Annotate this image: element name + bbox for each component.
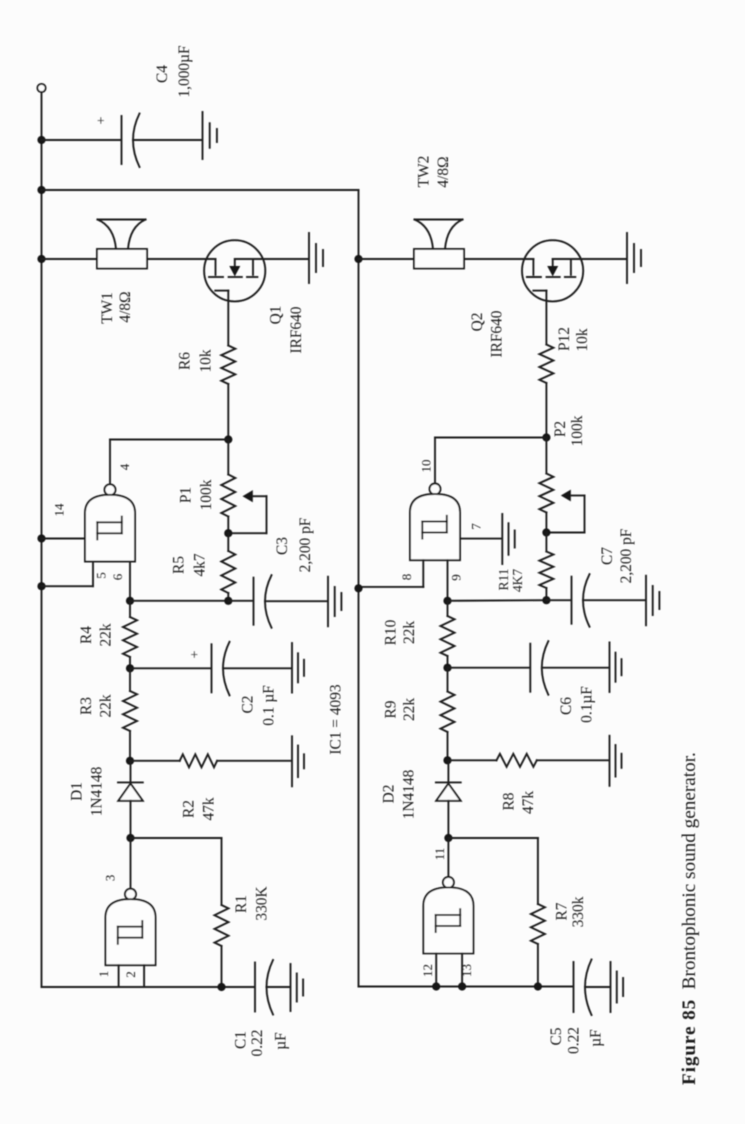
svg-text:4K7: 4K7 — [510, 569, 525, 592]
svg-text:R10: R10 — [383, 619, 400, 645]
svg-text:C4: C4 — [154, 65, 171, 83]
svg-text:+: + — [95, 116, 110, 124]
svg-text:4/8Ω: 4/8Ω — [117, 291, 134, 322]
wire bottom channel-2 — [359, 986, 573, 988]
node D1-R2 — [126, 757, 134, 765]
resistor R11 — [545, 533, 547, 552]
ground Q2 — [626, 233, 628, 283]
node R11 bottom — [542, 596, 550, 604]
gate U1B — [105, 484, 116, 495]
P2 wiper — [561, 490, 571, 502]
wire top rail to channel 2 — [42, 189, 359, 191]
svg-text:C5: C5 — [548, 1027, 565, 1045]
capacitor C5 — [573, 962, 575, 1012]
node pin14 junction — [37, 534, 45, 542]
node pin9 bottom — [443, 597, 451, 605]
svg-text:P12: P12 — [556, 327, 573, 351]
supply terminal — [37, 84, 45, 92]
wire to TW1 — [42, 258, 98, 260]
node R1 tap — [126, 834, 134, 842]
node C4 junction — [37, 136, 45, 144]
wire TW2 to Q2 — [464, 258, 533, 260]
wire pin 14 — [42, 538, 86, 540]
wire pin 1 — [118, 965, 120, 987]
svg-text:100k: 100k — [569, 415, 586, 446]
svg-text:100k: 100k — [198, 479, 215, 510]
wire center supply rail — [358, 190, 360, 987]
svg-text:Figure 85 Brontophonic sound: Figure 85 Brontophonic sound generator. — [679, 752, 700, 1085]
node TW2 junction — [354, 255, 362, 263]
svg-text:C7: C7 — [599, 547, 616, 565]
svg-text:P2: P2 — [552, 421, 569, 437]
svg-text:R7: R7 — [554, 902, 571, 920]
svg-text:R9: R9 — [383, 700, 400, 718]
wire to C6 — [448, 667, 530, 669]
potentiometer P2 — [545, 438, 547, 474]
wire pin 5 — [92, 562, 94, 587]
svg-text:C2: C2 — [240, 696, 257, 714]
speaker TW1 — [97, 249, 147, 269]
transistor Q1 — [204, 240, 265, 301]
svg-text:1N4148: 1N4148 — [89, 766, 106, 816]
wire to C7 — [546, 599, 570, 601]
wire Q1 source to ground — [235, 258, 309, 260]
svg-text:R2: R2 — [181, 800, 198, 818]
svg-text:R4: R4 — [78, 626, 95, 644]
node R7 bottom — [534, 982, 542, 990]
resistor R6 — [221, 346, 235, 385]
svg-text:13: 13 — [459, 964, 474, 977]
wire Q1 gate down — [227, 291, 229, 346]
svg-text:TW2: TW2 — [416, 156, 433, 188]
wire to TW2 — [359, 258, 415, 260]
node D2-R8 — [443, 756, 451, 764]
capacitor C4 — [121, 116, 123, 164]
svg-text:330K: 330K — [254, 886, 271, 920]
svg-text:0.22: 0.22 — [566, 1027, 583, 1054]
wire R6 to node — [227, 384, 229, 440]
node feedback channel-2 — [542, 433, 550, 441]
svg-text:330k: 330k — [570, 896, 587, 927]
resistor R9 — [447, 668, 449, 692]
svg-text:11: 11 — [432, 848, 447, 861]
wire pin3 output — [130, 838, 132, 888]
svg-text:µF: µF — [588, 1029, 605, 1046]
resistor R3 — [129, 668, 131, 691]
node P2 bottom — [542, 528, 550, 536]
ground C1 — [290, 964, 292, 1011]
svg-text:6: 6 — [110, 573, 125, 580]
wire osc node channel-1 — [130, 600, 228, 602]
svg-text:D2: D2 — [381, 785, 398, 804]
svg-text:22k: 22k — [98, 623, 115, 646]
wire pin 7 — [459, 538, 461, 540]
svg-text:P1: P1 — [178, 487, 195, 503]
svg-text:12: 12 — [420, 964, 435, 977]
capacitor C1 — [254, 963, 256, 1012]
node R5 bottom — [224, 597, 232, 605]
svg-text:22k: 22k — [401, 698, 418, 721]
resistor P12 — [539, 345, 553, 384]
wire P12 to node — [545, 383, 547, 438]
svg-text:Q1: Q1 — [268, 306, 285, 325]
svg-text:R1: R1 — [233, 895, 250, 913]
potentiometer P1 — [227, 440, 229, 475]
wire left supply rail — [41, 92, 43, 987]
svg-text:R6: R6 — [177, 352, 194, 370]
svg-text:D1: D1 — [69, 782, 86, 801]
wire pin 13 — [461, 953, 463, 986]
gate U1A — [125, 889, 136, 900]
ground C2 — [291, 643, 293, 693]
svg-text:5: 5 — [94, 572, 109, 579]
node TW1 junction — [37, 255, 45, 263]
wire pin 2 — [143, 965, 145, 987]
wire to R1 — [131, 837, 222, 839]
svg-text:0.22: 0.22 — [249, 1030, 266, 1057]
ground C5 — [610, 962, 612, 1012]
svg-text:4: 4 — [117, 463, 132, 470]
svg-text:9: 9 — [449, 574, 464, 581]
node P1 bottom — [224, 529, 232, 537]
capacitor C7 — [571, 577, 573, 624]
svg-text:22k: 22k — [401, 621, 418, 644]
svg-text:C3: C3 — [274, 537, 291, 555]
node R1 bottom — [217, 983, 225, 991]
wire pin11 output — [447, 838, 449, 876]
svg-text:µF: µF — [273, 1032, 290, 1049]
svg-text:1,000µF: 1,000µF — [176, 45, 193, 97]
wire to C2 — [130, 667, 211, 669]
svg-text:C6: C6 — [558, 697, 575, 715]
node R9-R10 — [443, 664, 451, 672]
svg-text:14: 14 — [52, 503, 67, 517]
transistor Q2 — [522, 240, 583, 301]
wire to C3 — [228, 600, 253, 602]
ground R2 — [291, 736, 293, 786]
svg-text:4k7: 4k7 — [192, 553, 209, 576]
svg-text:10: 10 — [419, 460, 434, 473]
svg-text:R8: R8 — [501, 792, 518, 810]
gate U1D — [443, 877, 454, 888]
svg-text:8: 8 — [399, 574, 414, 581]
ground C3 — [327, 577, 329, 627]
diode D2 — [447, 760, 449, 782]
svg-text:IC1 = 4093: IC1 = 4093 — [328, 684, 345, 755]
node supply rail split — [37, 186, 45, 194]
svg-text:Q2: Q2 — [469, 313, 486, 332]
wire pin 12 — [435, 953, 437, 986]
svg-text:R3: R3 — [78, 697, 95, 715]
ground R8 — [609, 736, 611, 786]
svg-text:10k: 10k — [574, 328, 591, 351]
ground C4 — [202, 112, 204, 159]
wire to C4 — [42, 139, 121, 141]
wire pin 6 — [129, 562, 131, 601]
P1 wiper — [243, 490, 253, 502]
wire pin4 feedback — [110, 439, 228, 441]
resistor R4 — [129, 601, 131, 617]
wire Q2 source to ground — [553, 258, 627, 260]
capacitor C3 — [253, 578, 255, 625]
node feedback channel-1 — [224, 435, 232, 443]
node pin6 bottom — [126, 597, 134, 605]
capacitor C2 — [211, 644, 213, 692]
node R3-R4 — [126, 664, 134, 672]
svg-text:+: + — [188, 650, 203, 658]
speaker TW2 — [414, 249, 464, 269]
svg-text:2,200 pF: 2,200 pF — [618, 529, 635, 584]
wire pin 9 — [447, 560, 449, 601]
node pin5 junction — [37, 582, 45, 590]
capacitor C6 — [529, 644, 531, 692]
wire bottom channel-1 — [42, 986, 255, 988]
wire pin 8 — [422, 560, 424, 587]
svg-text:2: 2 — [123, 971, 138, 978]
svg-text:R5: R5 — [171, 556, 188, 574]
svg-text:4/8Ω: 4/8Ω — [435, 156, 452, 187]
svg-text:IRF640: IRF640 — [489, 310, 506, 357]
gate U1C — [430, 484, 441, 495]
ground C7 — [645, 576, 647, 626]
node pin 12 — [432, 982, 440, 990]
node R7 tap — [444, 834, 452, 842]
svg-text:R11: R11 — [496, 568, 511, 590]
wire pin10 feedback — [435, 437, 546, 439]
diode D1 — [130, 761, 132, 783]
wire osc node channel-2 — [448, 599, 547, 602]
resistor R7 — [537, 838, 539, 904]
svg-text:C1: C1 — [233, 1031, 250, 1049]
resistor R2 — [130, 760, 180, 762]
svg-text:0.1µF: 0.1µF — [579, 686, 596, 723]
resistor R8 — [448, 759, 497, 761]
svg-text:1: 1 — [96, 971, 111, 978]
svg-text:IRF640: IRF640 — [288, 306, 305, 353]
resistor R1 — [221, 838, 223, 905]
svg-text:2,200 pF: 2,200 pF — [297, 518, 314, 573]
svg-text:7: 7 — [469, 523, 484, 530]
ground pin 7 — [501, 514, 503, 564]
ground C6 — [609, 642, 611, 692]
node pin8 junction — [354, 584, 362, 592]
ground Q1 — [308, 233, 310, 283]
svg-text:TW1: TW1 — [99, 292, 116, 324]
wire TW1 to Q1 — [147, 258, 216, 260]
wire to R7 — [448, 837, 538, 839]
svg-text:0.1 µF: 0.1 µF — [261, 685, 278, 726]
svg-text:47k: 47k — [201, 797, 218, 820]
svg-text:1N4148: 1N4148 — [401, 769, 418, 819]
svg-text:3: 3 — [103, 875, 118, 882]
svg-text:10k: 10k — [198, 349, 215, 372]
node pin 13 — [458, 982, 466, 990]
wire Q2 gate down — [545, 291, 547, 345]
resistor R10 — [447, 601, 449, 616]
svg-text:22k: 22k — [98, 694, 115, 717]
resistor R5 — [227, 533, 229, 551]
svg-text:47k: 47k — [520, 791, 537, 814]
